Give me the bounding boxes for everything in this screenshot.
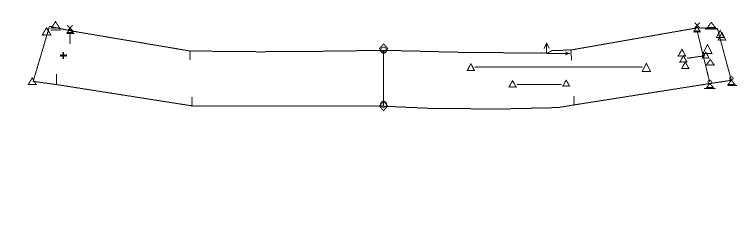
node doubled triangles on right cap [717,30,726,39]
node triangle stack right cluster [702,45,714,65]
node tick on top edge at x=190 [189,52,191,60]
wire short horizontal member 517-561 [517,83,562,85]
wire interior slanted member at right end [697,32,709,82]
node triangle at x=512 [509,81,516,87]
node X-mark with support at x=697 on top edge [694,23,701,32]
wire interior vertical member at midspan [383,50,385,106]
arrow horizontal from 547 to 572 [547,51,571,55]
wire bottom edge of strip [33,80,731,109]
node bottom midspan diamond-circle marker [379,101,387,110]
node triangle stack left of right cluster [678,49,689,68]
node triangle at x=471 [467,64,474,71]
wire top edge of strip [50,26,718,53]
node plus cross marker [60,52,67,59]
node tick on bottom edge at x=57 [56,74,58,84]
node triangle at x=566 [563,80,570,86]
support triangle with base plate at x=55 top left [50,22,61,30]
wire right end cap [717,29,731,81]
node tick on bottom edge at x=574 [573,96,575,105]
support circle triangle plate at x=731 bottom right corner [727,77,737,86]
arrow up at x=547 [544,43,549,53]
arrow short line to right cluster [687,54,706,58]
wire left end cap [33,26,49,81]
node triangle on left cap [42,28,51,35]
node X-mark with support at x=70 on top edge [67,25,75,44]
node tick on bottom edge at x=192 [191,97,193,105]
node triangle at x=646 [642,63,650,71]
node top midspan diamond-circle marker [379,44,387,53]
support circle triangle plate at x=710 bottom [704,80,715,88]
support triangle with base plate at x=711 top right [705,22,717,28]
node triangle at bottom left corner [28,78,36,84]
node tick near arrow tip at x=572 [570,51,573,61]
wire long horizontal member 474-642 [475,66,643,68]
